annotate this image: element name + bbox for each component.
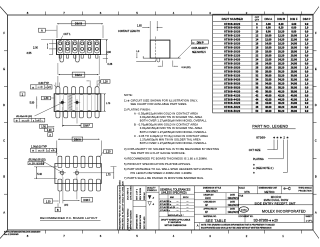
- svg-text:6.00: 6.00: [266, 27, 271, 30]
- svg-text:SEE CHART FOR AVAILABLE PART S: SEE CHART FOR AVAILABLE PART SIZES.: [131, 102, 188, 106]
- svg-text:26.00: 26.00: [291, 66, 298, 69]
- pcb layout DIM A dimension: [58, 138, 100, 140]
- svg-text:Ø0.10Ⓜ: Ø0.10Ⓜ: [22, 118, 29, 122]
- svg-text:∗: ∗: [253, 171, 256, 174]
- svg-text:PLATING: PLATING: [253, 157, 264, 161]
- svg-text:22.00: 22.00: [265, 59, 272, 62]
- svg-text:87368-3820: 87368-3820: [224, 86, 240, 89]
- svg-text:6.00: 6.00: [291, 27, 296, 30]
- side view right SMT lead: [170, 57, 181, 59]
- side view centerline: [155, 37, 157, 63]
- svg-text:28.00: 28.00: [265, 70, 272, 73]
- svg-text:87368-1820: 87368-1820: [224, 47, 240, 50]
- svg-text:46.00: 46.00: [265, 106, 272, 109]
- side view body: [150, 40, 170, 58]
- svg-text:10.00: 10.00: [265, 35, 272, 38]
- front view DIM B dimension: [57, 23, 103, 25]
- svg-text:1 OF 1: 1 OF 1: [306, 220, 313, 222]
- front view solder tails: [59, 55, 61, 59]
- pcb layout lower ext lines: [58, 191, 60, 203]
- svg-text:A - 0.38µM/15µIN MIN GOLD IN C: A - 0.38µM/15µIN MIN GOLD IN CONTACT ARE…: [134, 111, 198, 115]
- svg-text:5) PRODUCT SPECIFICATION PS-87: 5) PRODUCT SPECIFICATION PS-87368 APPLIE…: [124, 162, 191, 166]
- top view position tolerance frame: [30, 85, 52, 89]
- svg-text:4.00: 4.00: [291, 23, 296, 26]
- svg-text:8.00: 8.00: [266, 31, 271, 34]
- svg-text:87368-2220: 87368-2220: [224, 55, 240, 58]
- border zone ticks top: [45, 12, 47, 16]
- svg-text:3) COPLANARITY OF SOLDER TAIL: 3) COPLANARITY OF SOLDER TAIL IS TO BE M…: [124, 147, 219, 151]
- svg-text:THE PART ON A FLAT GAUGE SURFA: THE PART ON A FLAT GAUGE SURFACE.: [131, 151, 186, 155]
- corner trim top-right: [313, 7, 319, 16]
- svg-text:MM ONLY: MM ONLY: [206, 189, 218, 193]
- front view datum A flag: [39, 28, 46, 32]
- title block outline: [118, 186, 313, 230]
- svg-text:32.00: 32.00: [291, 78, 298, 81]
- svg-text:34.00: 34.00: [265, 82, 272, 85]
- pcb layout top pads: [58, 156, 62, 167]
- svg-text:5° MAXIMUM: 5° MAXIMUM: [168, 221, 181, 224]
- svg-text:4.00: 4.00: [266, 23, 271, 26]
- svg-text:22.20: 22.20: [278, 55, 285, 58]
- svg-text:28.00: 28.00: [291, 70, 298, 73]
- svg-text:44.00: 44.00: [265, 102, 272, 105]
- svg-text:28.20: 28.20: [278, 66, 285, 69]
- svg-text:1992/06/26: 1992/06/26: [228, 205, 240, 207]
- svg-text:B: B: [57, 208, 59, 212]
- svg-text:MATERIAL NO.: MATERIAL NO.: [204, 215, 218, 218]
- svg-text:0.9: 0.9: [305, 23, 309, 26]
- svg-text:DIMENSIONED UNIT: DIMENSIONED UNIT: [259, 188, 278, 190]
- svg-text:KP: KP: [205, 212, 209, 214]
- svg-text:4.90: 4.90: [106, 51, 111, 54]
- svg-text:CHECKED BY: CHECKED BY: [204, 202, 217, 204]
- molex logo: [239, 207, 248, 212]
- svg-text:5: 5: [136, 11, 138, 15]
- border zone ticks bottom: [45, 230, 47, 234]
- svg-text:E: E: [315, 67, 317, 71]
- svg-text:(2X): (2X): [64, 204, 68, 206]
- svg-text:DATE: DATE: [230, 201, 236, 204]
- legend leader lines: [273, 140, 275, 150]
- svg-text:87368-: 87368-: [256, 135, 266, 139]
- svg-text:2) PLATING FINISH:: 2) PLATING FINISH:: [124, 108, 151, 112]
- svg-text:DIM F: DIM F: [290, 17, 298, 21]
- svg-text:87368-0620: 87368-0620: [224, 23, 240, 26]
- svg-text:0.9: 0.9: [305, 55, 309, 58]
- svg-text:DOC REV E: DOC REV E: [127, 187, 129, 200]
- svg-text:CHK RG 03/04: CHK RG 03/04: [131, 185, 133, 200]
- svg-text:Ø0.1Ⓜ: Ø0.1Ⓜ: [38, 149, 44, 153]
- svg-text:F: F: [315, 31, 317, 35]
- svg-text:1.5: 1.5: [136, 51, 140, 53]
- front view contact cavities: [58, 41, 63, 53]
- svg-text:PART NO. LEGEND: PART NO. LEGEND: [252, 125, 288, 129]
- svg-text:DIM B: DIM B: [277, 17, 285, 21]
- svg-text:87368-1220: 87368-1220: [224, 35, 240, 38]
- svg-text:B: B: [3, 175, 5, 179]
- svg-text:SD-87368-∗∗20: SD-87368-∗∗20: [254, 219, 279, 223]
- pcb layout hole centerline to right dim: [81, 172, 114, 174]
- svg-text:SHEET: SHEET: [306, 216, 313, 218]
- svg-text:MOLEX INCORPORATED: MOLEX INCORPORATED: [262, 210, 306, 214]
- top view dim 1.30 box: [41, 96, 50, 99]
- side view left SMT lead: [143, 56, 150, 58]
- part number table: [213, 14, 313, 113]
- svg-text:CKT 1: CKT 1: [64, 33, 72, 36]
- svg-text:1 PLACE ±: 1 PLACE ±: [160, 209, 171, 212]
- svg-text:6.20: 6.20: [279, 23, 284, 26]
- svg-text:A: A: [315, 210, 317, 214]
- svg-text:THIRD ANGLE: THIRD ANGLE: [298, 187, 312, 190]
- svg-text:1.20: 1.20: [47, 129, 52, 132]
- svg-text:CONTACT LENGTH: CONTACT LENGTH: [118, 30, 140, 33]
- svg-text:26.00: 26.00: [265, 66, 272, 69]
- shared DIM A dimension between views: [59, 74, 99, 76]
- svg-text:1: 1: [282, 234, 284, 238]
- pcb layout bottom pads: [58, 179, 62, 191]
- svg-text:24.00: 24.00: [291, 62, 298, 65]
- svg-text:18.00: 18.00: [291, 51, 298, 54]
- svg-text:5.40: 5.40: [37, 173, 42, 176]
- svg-text:87368-4020: 87368-4020: [224, 90, 240, 93]
- svg-text:10.00: 10.00: [291, 35, 298, 38]
- svg-text:B - 0.76µM/30µIN MIN GOLD IN C: B - 0.76µM/30µIN MIN GOLD IN CONTACT ARE…: [134, 123, 198, 127]
- dimension style cell: [238, 186, 240, 214]
- corner trim top-left: [0, 7, 8, 16]
- top view DIM F dimension: [62, 124, 81, 126]
- svg-text:BⓂ: BⓂ: [51, 149, 54, 153]
- svg-text:1.9: 1.9: [305, 27, 309, 30]
- svg-text:AP: AP: [205, 204, 209, 207]
- svg-text:1.9: 1.9: [305, 59, 309, 62]
- corner trim bottom-right: [313, 230, 319, 239]
- svg-text:3.81µM/150µIN MIN TIN IN SOLDE: 3.81µM/150µIN MIN TIN IN SOLDER TAIL ARE…: [140, 115, 203, 119]
- svg-text:PART NUMBER: PART NUMBER: [222, 17, 244, 21]
- top view dim 1.20 box right: [101, 80, 110, 84]
- svg-text:30.00: 30.00: [291, 74, 298, 77]
- border zone ticks left: [4, 50, 8, 52]
- svg-text:1.9: 1.9: [305, 90, 309, 93]
- svg-text:14.00: 14.00: [291, 43, 298, 46]
- svg-text:12.20: 12.20: [278, 35, 285, 38]
- svg-text:18.20: 18.20: [278, 47, 285, 50]
- svg-text:87368-5020: 87368-5020: [224, 110, 240, 113]
- svg-text:C: C: [315, 139, 317, 143]
- top view terminal channels inside body: [55, 95, 57, 111]
- svg-text:DOC SD-420: DOC SD-420: [144, 216, 146, 229]
- svg-text:molex: molex: [241, 210, 248, 212]
- side view coplanarity flag: [191, 40, 208, 44]
- svg-text:5.90: 5.90: [30, 102, 35, 105]
- svg-text:7: 7: [63, 234, 65, 238]
- svg-text:DOCUMENT NO.: DOCUMENT NO.: [239, 216, 254, 218]
- svg-text:8: 8: [27, 234, 29, 238]
- top view 1.50 callout: [40, 124, 48, 128]
- svg-text:0.9: 0.9: [305, 62, 309, 65]
- svg-text:87368-3220: 87368-3220: [224, 74, 240, 77]
- svg-text:1.65: 1.65: [137, 25, 142, 28]
- svg-text:D: D: [315, 103, 317, 107]
- svg-text:0.9: 0.9: [305, 31, 309, 34]
- svg-text:40.00: 40.00: [265, 94, 272, 97]
- svg-text:∗: ∗: [286, 135, 289, 139]
- top view 0.60 extension lines: [55, 83, 57, 87]
- svg-text:BⓂ: BⓂ: [48, 85, 51, 89]
- svg-text:DRWN KAV 92/06/12: DRWN KAV 92/06/12: [126, 208, 129, 229]
- svg-text:NOTE: THIS DRAWING CONTAINS IN: NOTE: THIS DRAWING CONTAINS INFORMATION …: [201, 223, 275, 226]
- svg-text:A: A: [197, 224, 199, 228]
- top view body: [54, 94, 101, 112]
- svg-text:10.20: 10.20: [278, 31, 285, 34]
- svg-text:SHT 1 OF 1: SHT 1 OF 1: [136, 188, 138, 200]
- svg-text:1.9: 1.9: [305, 74, 309, 77]
- svg-text:87368-2620: 87368-2620: [224, 62, 240, 65]
- svg-text:1992/06/12: 1992/06/12: [228, 198, 240, 200]
- border zone ticks right: [313, 50, 317, 52]
- svg-text:1.9: 1.9: [305, 98, 309, 101]
- svg-text:16.00: 16.00: [265, 47, 272, 50]
- svg-text:44.00: 44.00: [291, 102, 298, 105]
- svg-text:E: E: [3, 67, 5, 71]
- svg-text:PIN LENGTH BETWEEN 2.30MM AND: PIN LENGTH BETWEEN 2.30MM AND 4.20MM.: [131, 171, 193, 175]
- svg-text:16.00: 16.00: [291, 47, 298, 50]
- svg-text:CKT SIZE: CKT SIZE: [249, 148, 261, 152]
- svg-text:44.20: 44.20: [278, 98, 285, 101]
- svg-text:0.9: 0.9: [305, 110, 309, 113]
- top view right edge dim: [104, 94, 106, 112]
- svg-text:D: D: [3, 103, 5, 107]
- svg-text:0.9: 0.9: [305, 39, 309, 42]
- svg-text:32.20: 32.20: [278, 74, 285, 77]
- svg-text:C - 0.05 TO 0.20µM (2 TO 8µ) G: C - 0.05 TO 0.20µM (2 TO 8µ) GOLD IN CON…: [134, 134, 208, 138]
- svg-text:DIM P: DIM P: [197, 41, 204, 44]
- svg-text:46.20: 46.20: [278, 102, 285, 105]
- front view connector body: [57, 40, 101, 55]
- svg-text:∗ (SEE NOTE 2 ): ∗ (SEE NOTE 2 ): [253, 166, 274, 170]
- svg-text:0.9: 0.9: [305, 47, 309, 50]
- svg-text:38.00: 38.00: [291, 90, 298, 93]
- svg-text:1.9: 1.9: [305, 66, 309, 69]
- svg-text:46.00: 46.00: [291, 106, 298, 109]
- pcb layout lower 1.30 box: [44, 199, 53, 203]
- svg-text:0.9: 0.9: [305, 102, 309, 105]
- svg-text:26.20: 26.20: [278, 62, 285, 65]
- svg-text:3.81µM/150µIN MIN TIN IN SOLDE: 3.81µM/150µIN MIN TIN IN SOLDER TAIL ARE…: [140, 126, 203, 130]
- svg-text:-0: -0: [152, 198, 155, 200]
- svg-text:0.9: 0.9: [305, 94, 309, 97]
- svg-text:6) PART MATEABLE TO ALL WELL-S: 6) PART MATEABLE TO ALL WELL-SPED HEADER…: [124, 167, 212, 171]
- svg-text:⊕─Ⓒ: ⊕─Ⓒ: [283, 186, 291, 191]
- svg-text:DIM P: DIM P: [303, 17, 311, 21]
- svg-text:87368-4220: 87368-4220: [224, 94, 240, 97]
- svg-text:QTY: QTY: [255, 20, 260, 22]
- svg-text:0.38: 0.38: [108, 63, 113, 66]
- svg-text:TITLE: TITLE: [238, 196, 244, 198]
- svg-text:7) PARTS SHALL BE PACKED IN MO: 7) PARTS SHALL BE PACKED IN MOISTURE BAR…: [124, 176, 204, 180]
- svg-text:ANGULAR ± 3 °: ANGULAR ± 3 °: [168, 214, 184, 217]
- svg-text:REV E 03/04: REV E 03/04: [140, 187, 142, 200]
- front view right dimension 0.38: [106, 55, 108, 59]
- svg-text:INCORPORATED AND SHOULD NOT BE: INCORPORATED AND SHOULD NOT BE USED WITH…: [201, 226, 272, 229]
- svg-text:1.9: 1.9: [305, 82, 309, 85]
- svg-text:REDRAWN PER EC NO: US-034257-0: REDRAWN PER EC NO: US-034257-02 KV 03/04: [118, 180, 121, 230]
- svg-text:8: 8: [27, 11, 29, 15]
- svg-text:36.00: 36.00: [265, 86, 272, 89]
- svg-text:48.00: 48.00: [265, 110, 272, 113]
- svg-text:1.00±0.10 TYP: 1.00±0.10 TYP: [31, 145, 47, 148]
- svg-text:Rev. E 2003/04/9: Rev. E 2003/04/9: [4, 234, 18, 236]
- svg-text:1.20: 1.20: [103, 81, 108, 84]
- svg-text:1.9: 1.9: [305, 51, 309, 54]
- svg-text:1.9: 1.9: [305, 106, 309, 109]
- svg-text:PROJECTION: PROJECTION: [299, 191, 312, 193]
- svg-text:2.00: 2.00: [33, 46, 38, 49]
- svg-text:6: 6: [100, 11, 102, 15]
- pcb layout footprint outline: [55, 164, 101, 184]
- svg-text:DIM A: DIM A: [264, 17, 272, 21]
- svg-text:30.00: 30.00: [265, 74, 272, 77]
- svg-text:87368-1420: 87368-1420: [224, 39, 240, 42]
- svg-text:∗: ∗: [253, 163, 256, 166]
- svg-text:2: 2: [283, 135, 285, 139]
- svg-text:12.00: 12.00: [291, 39, 298, 42]
- svg-text:8.00: 8.00: [291, 31, 296, 34]
- svg-text:BOTH OVER 1.27µM/50µIN MIN NIC: BOTH OVER 1.27µM/50µIN MIN NICKEL OVERAL…: [140, 130, 207, 134]
- title block left vertical strips: [124, 186, 126, 230]
- svg-text:30.20: 30.20: [278, 70, 285, 73]
- top view note flag 2 left: [20, 92, 25, 96]
- svg-text:8.20: 8.20: [279, 27, 284, 30]
- svg-text:87368-3620: 87368-3620: [224, 82, 240, 85]
- svg-text:1.9: 1.9: [305, 43, 309, 46]
- svg-text:2 PLACES ±0.20: 2 PLACES ±0.20: [160, 206, 176, 209]
- svg-text:F: F: [3, 31, 5, 35]
- svg-text:87368-4420: 87368-4420: [224, 98, 240, 101]
- left strip rotated text 3: [133, 200, 146, 202]
- svg-text:4: 4: [173, 234, 175, 238]
- svg-text:6: 6: [100, 234, 102, 238]
- svg-text:SERIES 87368: SERIES 87368: [140, 214, 142, 229]
- svg-text:A: A: [3, 210, 5, 214]
- svg-text:Ø1.02±0.05 (2X): Ø1.02±0.05 (2X): [16, 116, 32, 118]
- svg-text:APPROVED BY: APPROVED BY: [204, 208, 218, 211]
- svg-text:5: 5: [136, 234, 138, 238]
- svg-text:24.20: 24.20: [278, 59, 285, 62]
- svg-text:7: 7: [63, 11, 65, 15]
- svg-text:0.9: 0.9: [305, 86, 309, 89]
- svg-text:0.10 (2X): 0.10 (2X): [182, 67, 191, 69]
- svg-text:DRAWN BY: DRAWN BY: [204, 193, 215, 196]
- svg-text:∗: ∗: [280, 135, 283, 139]
- svg-text:42.00: 42.00: [265, 98, 272, 101]
- svg-text:87368-4620: 87368-4620: [224, 102, 240, 105]
- svg-text:87368-1020: 87368-1020: [224, 31, 240, 34]
- svg-text:18.00: 18.00: [265, 51, 272, 54]
- pcb layout note flag 2: [48, 133, 53, 137]
- svg-text:1.9: 1.9: [305, 35, 309, 38]
- svg-text:24.00: 24.00: [265, 62, 272, 65]
- svg-text:CKT: CKT: [255, 17, 260, 19]
- svg-text:WITHIN DIMENSIONS: WITHIN DIMENSIONS: [165, 225, 187, 227]
- svg-text:DIM A: DIM A: [74, 138, 81, 141]
- svg-text:SCALE: SCALE: [239, 187, 246, 190]
- svg-text:32.00: 32.00: [265, 78, 272, 81]
- svg-text:DATE: DATE: [230, 208, 236, 211]
- svg-text:87368-2820: 87368-2820: [224, 66, 240, 69]
- svg-text:38.20: 38.20: [278, 86, 285, 89]
- pcb layout 5.40 dim: [34, 166, 57, 168]
- svg-text:COPLANARITY: COPLANARITY: [192, 47, 209, 50]
- svg-text:14.00: 14.00: [265, 43, 272, 46]
- pcb layout pad position tolerance: [30, 148, 56, 152]
- svg-text:APPR MV 92/06/26: APPR MV 92/06/26: [130, 210, 133, 230]
- front view right dimension 4.90: [106, 40, 108, 55]
- top view lead pitch sub-dimension: [89, 81, 91, 87]
- svg-text:JACK: JACK: [205, 197, 211, 200]
- top view top leads: [56, 87, 60, 95]
- svg-text:87368-3420: 87368-3420: [224, 78, 240, 81]
- svg-text:0.9: 0.9: [305, 70, 309, 73]
- top view body right wall: [97, 94, 99, 112]
- svg-text:2: 2: [246, 234, 248, 238]
- svg-text:1.30: 1.30: [44, 97, 49, 100]
- front view locating pegs: [60, 55, 64, 63]
- svg-text:14.20: 14.20: [278, 39, 285, 42]
- top view locating peg holes: [61, 101, 64, 104]
- svg-text:DRAFT WHERE APPLICABLE: DRAFT WHERE APPLICABLE: [161, 218, 191, 221]
- svg-text:50.20: 50.20: [278, 110, 285, 113]
- svg-text:34.20: 34.20: [278, 78, 285, 81]
- svg-text:1.30: 1.30: [46, 200, 51, 203]
- svg-text:4 PLACES ±: 4 PLACES ±: [160, 200, 172, 203]
- svg-text:87368-0820: 87368-0820: [224, 27, 240, 30]
- corner trim bottom-left: [0, 230, 8, 239]
- svg-text:BⓂ: BⓂ: [36, 118, 39, 122]
- pcb layout right dim 1.75: [111, 166, 117, 168]
- side view bottom dim 0.10: [161, 61, 163, 67]
- svg-text:0.9: 0.9: [305, 78, 309, 81]
- svg-text:-0: -0: [152, 204, 155, 206]
- pcb layout 1.20 box right: [104, 150, 113, 154]
- svg-text:4: 4: [173, 11, 175, 15]
- svg-text:3: 3: [209, 234, 211, 238]
- svg-text:1.20: 1.20: [106, 151, 111, 154]
- svg-text:20.00: 20.00: [265, 55, 272, 58]
- svg-text:SIZE A2: SIZE A2: [143, 192, 146, 200]
- svg-text:DIM B: DIM B: [75, 22, 82, 26]
- svg-text:1.75: 1.75: [106, 103, 111, 105]
- svg-text:20.20: 20.20: [278, 51, 285, 54]
- svg-text:1.75: 1.75: [106, 175, 111, 177]
- svg-text:22.00: 22.00: [291, 59, 298, 62]
- svg-text:⊕: ⊕: [29, 162, 31, 165]
- svg-text:DIM F: DIM F: [83, 125, 90, 128]
- svg-text:34.00: 34.00: [291, 82, 298, 85]
- svg-text:BOTH OVER 1.27µM/50µIN MIN NIC: BOTH OVER 1.27µM/50µIN MIN NICKEL OVERAL…: [140, 119, 207, 123]
- svg-text:BOTH OVER 1.27µM/50µIN MIN NIC: BOTH OVER 1.27µM/50µIN MIN NICKEL OVERAL…: [140, 141, 207, 145]
- svg-text:42.20: 42.20: [278, 94, 285, 97]
- svg-text:SYMBOLS: SYMBOLS: [147, 190, 157, 192]
- svg-text:87368-3020: 87368-3020: [224, 70, 240, 73]
- top view section hatch band: [68, 94, 72, 112]
- svg-text:0.2Ⓜ: 0.2Ⓜ: [38, 85, 43, 89]
- svg-text:C: C: [3, 139, 5, 143]
- pcb layout lower DIM F dim: [63, 199, 80, 201]
- svg-text:87368-1620: 87368-1620: [224, 43, 240, 46]
- svg-text:RECOMMENDED P.C. BOARD LAYOUT: RECOMMENDED P.C. BOARD LAYOUT: [40, 216, 98, 220]
- svg-text:16.20: 16.20: [278, 43, 285, 46]
- svg-text:36.20: 36.20: [278, 82, 285, 85]
